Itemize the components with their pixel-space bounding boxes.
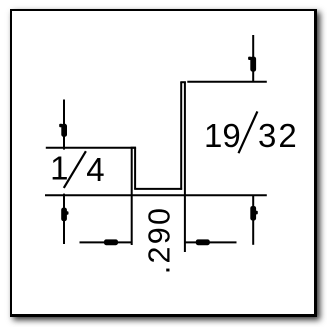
svg-text:.290: .290	[142, 206, 176, 275]
extension line top-left for 1/4	[46, 147, 136, 149]
profile: left short leg outer line + extension line down	[131, 148, 133, 245]
svg-text:19: 19	[204, 117, 241, 154]
arrowhead down, 19/32 upper	[250, 57, 256, 72]
dimension line 1/4 lower	[63, 194, 65, 244]
arrowhead left, .290 right	[196, 239, 210, 245]
dimension line .290 right stub	[185, 241, 237, 243]
profile: inner bottom line	[134, 188, 182, 190]
slash of 1/4	[64, 151, 86, 188]
arrowhead right, .290 left	[104, 239, 118, 245]
dimension line .290 left stub	[80, 241, 132, 243]
arrowhead up, 19/32 lower	[250, 206, 256, 221]
svg-text:4: 4	[86, 151, 104, 188]
dimension line 1/4 upper	[63, 100, 65, 150]
extension line top-right for 19/32	[187, 81, 266, 83]
dimension line 19/32 lower	[252, 195, 254, 245]
profile: left leg top cap	[131, 147, 137, 149]
dimension line 19/32 upper	[252, 35, 254, 82]
profile: outer bottom line (also extension line)	[45, 194, 267, 196]
slash of 19/32	[239, 111, 258, 153]
profile: right tall leg inner (left) line	[180, 82, 182, 190]
svg-text:32: 32	[258, 117, 299, 154]
profile: left short leg inner line	[134, 148, 136, 190]
profile: right tall leg outer (right) line + extension down	[184, 82, 186, 252]
svg-text:1: 1	[50, 150, 68, 187]
arrowhead up, 1/4 lower	[61, 208, 67, 222]
profile: right leg top cap	[180, 81, 186, 83]
arrowhead down, 1/4 upper	[61, 124, 67, 137]
